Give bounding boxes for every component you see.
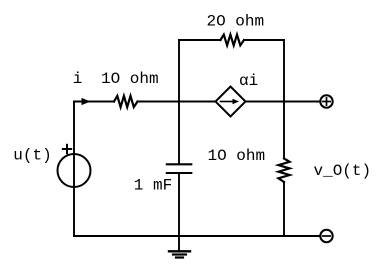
dependent source U1 (diamond, alpha*i)	[216, 87, 246, 117]
capacitor C1 plates	[167, 163, 192, 165]
svg-text:1O ohm: 1O ohm	[208, 147, 266, 165]
terminal minus (bottom right)	[320, 230, 332, 242]
wire capacitor branch bottom	[178, 173, 180, 236]
wire middle segment to dependent source	[138, 101, 216, 103]
wire middle left segment	[74, 101, 114, 103]
wire right branch upper	[283, 102, 285, 159]
resistor R1 10 ohm (middle)	[114, 96, 138, 107]
svg-text:αi: αi	[239, 72, 258, 90]
svg-text:i: i	[73, 70, 83, 88]
ground stem	[178, 236, 180, 251]
wire left vertical branch	[73, 102, 75, 237]
resistor R2 20 ohm (top)	[221, 35, 245, 46]
plus sign of source	[63, 148, 71, 150]
wire top loop right vertical	[283, 40, 285, 102]
arrow inside dependent source	[221, 101, 234, 103]
svg-text:1O ohm: 1O ohm	[101, 70, 159, 88]
svg-text:u(t): u(t)	[13, 147, 51, 165]
ground bars	[169, 250, 190, 252]
wire right branch lower	[283, 182, 285, 236]
wire top loop left horizontal	[179, 39, 221, 41]
current arrow i	[82, 98, 91, 105]
terminal plus (top right)	[320, 95, 332, 107]
svg-text:2O ohm: 2O ohm	[207, 13, 265, 31]
wire middle right segment	[246, 101, 321, 103]
svg-text:v_O(t): v_O(t)	[314, 162, 372, 180]
wire capacitor branch top	[178, 102, 180, 165]
resistor R3 10 ohm (vertical)	[278, 159, 289, 183]
wire top loop right horizontal	[244, 39, 284, 41]
wire bottom	[74, 235, 320, 237]
wire top loop left vertical	[178, 40, 180, 102]
voltage source u(t) circle	[58, 154, 91, 187]
svg-text:1 mF: 1 mF	[134, 177, 172, 195]
